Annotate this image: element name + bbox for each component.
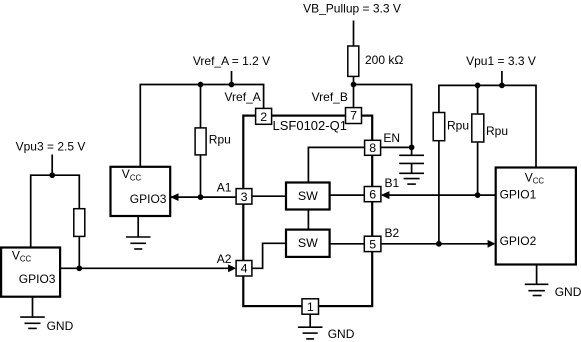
pin 5 box: [364, 236, 381, 251]
svg-text:Vref_B: Vref_B: [312, 90, 348, 104]
resistor Rpu RB2 body: [433, 113, 445, 141]
junction Vref_A rail / Rpu: [198, 82, 204, 88]
svg-text:7: 7: [350, 109, 357, 123]
resistor Rpu RA body: [195, 128, 206, 155]
wire SW1 to SW2: [307, 210, 309, 230]
resistor Rpu RB1 body: [472, 114, 484, 142]
wire Rpu RB2 bottom to B2: [438, 141, 440, 244]
svg-text:Rpu: Rpu: [447, 119, 469, 133]
ground GPIO3 upper: [126, 237, 151, 249]
svg-text:VB_Pullup = 3.3 V: VB_Pullup = 3.3 V: [303, 2, 401, 16]
junction Vpu1 rail / Rpu right: [475, 83, 481, 89]
arrow B1 into pin 6: [381, 191, 390, 199]
svg-text:Vpu1 = 3.3 V: Vpu1 = 3.3 V: [466, 54, 536, 68]
wire pin8 to EN node: [381, 146, 412, 148]
wire Vpu1 stub: [501, 71, 503, 85]
svg-text:Vref_A: Vref_A: [225, 90, 261, 104]
svg-text:Vpu3 = 2.5 V: Vpu3 = 2.5 V: [16, 139, 86, 153]
wire GPIO3 upper to ground: [137, 216, 139, 237]
wire SW2 to pin5: [330, 243, 365, 245]
junction Vpu1 rail / stub: [499, 83, 505, 89]
wire pin4 jog to SW2: [252, 243, 286, 268]
junction A1 / Rpu RA: [198, 194, 204, 200]
junction Vref_B node: [351, 82, 357, 88]
svg-text:8: 8: [369, 141, 376, 155]
svg-text:GND: GND: [555, 285, 581, 299]
wire rail to Rpu RA top: [200, 85, 202, 129]
wire A1 line: [171, 196, 236, 198]
junction Vpu3 rail: [49, 172, 55, 178]
resistor pull-up Vpu3 body: [74, 209, 85, 237]
arrow A1 into GPIO3: [170, 193, 178, 201]
junction B1 / Rpu: [475, 192, 481, 198]
wire B1 line: [382, 194, 496, 196]
wire Rpu RA bottom to A1: [200, 155, 202, 197]
junction Vref_A rail / stub: [229, 82, 235, 88]
svg-text:GND: GND: [328, 327, 355, 341]
GPIO3 upper box: [111, 167, 171, 216]
wire SW1 to pin6: [330, 194, 365, 196]
svg-text:SW: SW: [298, 189, 318, 203]
wire pin8 internal to SW1: [308, 147, 364, 182]
pin 3 box: [236, 189, 252, 205]
wire Vpu3 stub: [51, 155, 53, 176]
arrow B2 into GPIO2: [488, 240, 496, 248]
svg-text:B2: B2: [385, 226, 400, 240]
GPIO1 GPIO2 box: [496, 168, 576, 265]
wire capacitor to ground: [411, 163, 413, 173]
svg-text:GND: GND: [47, 319, 74, 333]
wire GPIO box to ground: [536, 265, 538, 285]
GPIO3 lower box: [1, 248, 60, 297]
ground IC: [298, 327, 323, 339]
wire rail to Rpu RB1 top: [477, 85, 479, 114]
ground EN: [399, 173, 424, 184]
wire Vref_A stub: [231, 71, 233, 85]
ground GPIO right: [525, 284, 549, 295]
wire Vref_A rail to GPIO3 Vcc and pin 2: [140, 85, 263, 167]
svg-text:5: 5: [369, 237, 376, 251]
wire pin1 to ground: [309, 314, 311, 327]
svg-text:GPIO1: GPIO1: [500, 188, 537, 202]
svg-text:GPIO2: GPIO2: [500, 234, 537, 248]
pin 6 box: [364, 187, 381, 202]
wire R1 bottom to pin 7: [353, 76, 355, 107]
resistor R1 body: [348, 46, 359, 76]
svg-text:Rpu: Rpu: [486, 124, 508, 138]
junction A2 / resistor: [76, 265, 82, 271]
wire GPIO3 lower to ground: [32, 297, 34, 317]
wire Vpu3 rail to GPIO3 Vcc and pull-up resistor: [31, 175, 80, 247]
svg-text:GPIO3: GPIO3: [19, 272, 56, 286]
svg-text:3: 3: [241, 190, 248, 204]
IC U1 LSF0102-Q1 outline: [243, 116, 372, 307]
svg-text:200 kΩ: 200 kΩ: [365, 53, 403, 67]
switch SW1 box: [286, 183, 330, 210]
svg-text:Rpu: Rpu: [209, 133, 231, 147]
svg-text:Vref_A = 1.2 V: Vref_A = 1.2 V: [193, 54, 270, 68]
arrow A2 into pin 4: [228, 264, 236, 272]
pin 4 box: [236, 261, 252, 277]
svg-text:2: 2: [260, 110, 267, 124]
svg-text:LSF0102-Q1: LSF0102-Q1: [273, 118, 347, 133]
svg-text:EN: EN: [383, 131, 400, 145]
capacitor EN bypass plates: [399, 155, 424, 163]
switch SW2 box: [286, 230, 330, 257]
svg-text:A2: A2: [217, 252, 232, 266]
wire Rpu RB1 bottom to B1: [477, 142, 479, 195]
svg-text:1: 1: [307, 300, 314, 314]
wire Vref_B node to EN pull-down branch: [354, 85, 412, 156]
svg-text:4: 4: [241, 262, 248, 276]
ground GPIO3 lower: [20, 317, 45, 328]
wire resistor bottom to A2: [78, 236, 80, 268]
wire pin3 to SW1: [252, 195, 286, 197]
wire VB_Pullup stub to R1: [353, 21, 355, 47]
wire A2 line: [60, 267, 229, 269]
pin 8 box: [365, 140, 381, 155]
wire B2 line: [381, 243, 489, 245]
svg-text:6: 6: [369, 188, 376, 202]
wire Vpu1 rail to Rpu and GPIO Vcc: [439, 85, 536, 167]
svg-text:SW: SW: [298, 236, 318, 250]
pin 1 box: [302, 299, 319, 314]
pin 2 box: [256, 108, 272, 124]
svg-text:GPIO3: GPIO3: [130, 192, 167, 206]
pin 7 box: [346, 108, 362, 124]
svg-text:B1: B1: [385, 176, 400, 190]
junction B2 / Rpu: [436, 241, 442, 247]
svg-text:A1: A1: [217, 180, 232, 194]
junction EN node: [409, 145, 415, 151]
